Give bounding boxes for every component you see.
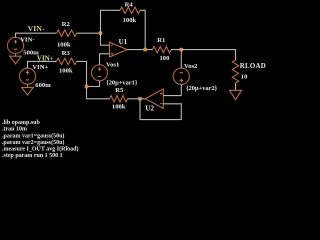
voltage source VIN-	[7, 37, 23, 53]
svg-text:R5: R5	[115, 87, 124, 94]
ground (under RLOAD)	[230, 90, 242, 99]
node junction (U2 output)	[138, 97, 142, 101]
op-amp U2 (mirrored buffer)	[145, 89, 163, 109]
svg-text:100k: 100k	[112, 103, 126, 110]
ground (under VIN+)	[22, 84, 33, 95]
wire U2 feedback loop	[140, 99, 181, 120]
wire Vos1 bottom to plus node	[87, 81, 100, 87]
wire U1 output	[127, 49, 153, 51]
wire R3 to plus node	[77, 61, 87, 98]
svg-text:U2: U2	[145, 105, 154, 113]
svg-text:VIN-: VIN-	[28, 24, 46, 33]
resistor R3	[57, 58, 77, 64]
resistor R1	[153, 46, 172, 52]
svg-text:U1: U1	[119, 38, 128, 46]
svg-text:.tran 10m: .tran 10m	[2, 127, 27, 133]
svg-text:Vos2: Vos2	[184, 63, 198, 70]
svg-text:R2: R2	[62, 21, 71, 28]
svg-text:600m: 600m	[35, 82, 51, 89]
node junction (plus node)	[85, 85, 89, 89]
node junction (U1 output / feedback)	[143, 48, 147, 52]
wire VIN+ stem and row	[28, 61, 57, 68]
wire R4 right leg down to output	[140, 10, 145, 49]
svg-text:100k: 100k	[57, 41, 71, 48]
wire R2 to inverting node	[77, 32, 101, 34]
svg-text:{20µ+var1}: {20µ+var1}	[106, 80, 138, 87]
svg-text:.lib opamp.sub: .lib opamp.sub	[2, 120, 41, 126]
wire Vos2 top to R1 output row	[180, 50, 182, 69]
wire Vos2 bottom stem	[180, 84, 182, 95]
resistor R2	[57, 30, 77, 36]
wire U2 + input to Vos2 bottom	[163, 95, 181, 97]
node junction (inverting input node)	[99, 31, 103, 35]
wire RLOAD bottom	[235, 83, 237, 90]
wire inverting node down to U1 - input	[101, 33, 110, 45]
svg-text:R4: R4	[125, 1, 134, 8]
svg-text:Vos1: Vos1	[106, 61, 119, 68]
voltage source VIN+	[19, 68, 35, 84]
svg-text:{20µ+var2}: {20µ+var2}	[186, 85, 218, 92]
svg-text:.measure I_OUT avg I(Rload): .measure I_OUT avg I(Rload)	[2, 146, 78, 153]
resistor RLOAD	[232, 60, 238, 83]
voltage source Vos1	[92, 65, 108, 81]
svg-text:R3: R3	[62, 50, 71, 57]
wire R1 to RLOAD	[171, 50, 236, 60]
wire Vos1 top to U1 + input	[100, 54, 110, 65]
wire VIN- stem and node VIN- row	[16, 33, 57, 37]
svg-text:100k: 100k	[59, 68, 73, 75]
svg-text:RLOAD: RLOAD	[240, 63, 266, 70]
svg-text:100: 100	[160, 55, 171, 62]
resistor R4	[120, 7, 140, 13]
node junction (R1/Vos2)	[180, 48, 184, 52]
svg-text:.param var2=gauss(50u): .param var2=gauss(50u)	[2, 139, 64, 146]
op-amp U1	[110, 42, 128, 57]
svg-text:.step param run 1 500 1: .step param run 1 500 1	[2, 153, 63, 159]
wire R4 left leg	[101, 10, 121, 33]
SPICE directives text block	[2, 120, 78, 159]
wire plus node to R5	[87, 98, 110, 100]
resistor R5	[110, 96, 128, 102]
ground (under VIN-)	[10, 54, 21, 64]
wire R5 to U2 output node	[128, 98, 146, 100]
svg-text:VIN+: VIN+	[32, 64, 48, 71]
svg-text:R1: R1	[157, 37, 165, 44]
svg-text:VIN+: VIN+	[37, 54, 54, 62]
svg-text:.param var1=gauss(50u): .param var1=gauss(50u)	[2, 132, 64, 139]
voltage source Vos2 (flipped)	[173, 68, 189, 84]
svg-text:VIN-: VIN-	[20, 37, 34, 44]
svg-text:10: 10	[241, 74, 248, 81]
svg-text:100k: 100k	[123, 17, 137, 24]
